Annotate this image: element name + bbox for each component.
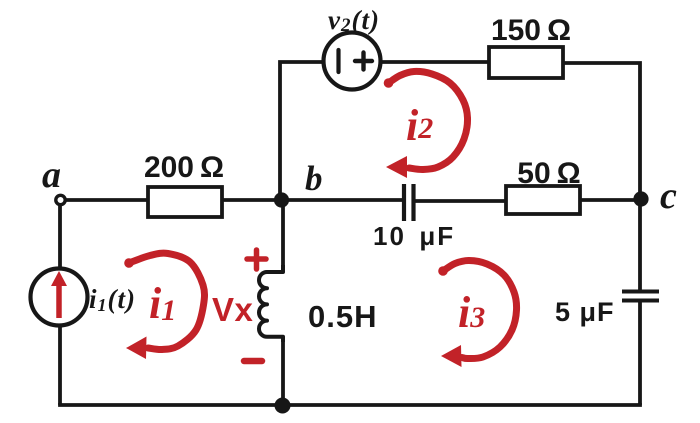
capacitor 5uF: [622, 292, 659, 301]
wire 150 ohm to top-right corner down to node c: [563, 63, 640, 197]
mesh arrow i3: [438, 260, 516, 367]
svg-text:v2(t): v2(t): [328, 5, 380, 36]
node c: [633, 191, 648, 206]
label 10uF: [373, 221, 455, 251]
label 50 ohm: [517, 157, 580, 190]
resistor 200 ohm: [148, 187, 222, 217]
mesh arrow i2: [384, 71, 468, 178]
wire top-left horizontal and vertical down to node b: [280, 62, 323, 200]
capacitor 10uF: [404, 184, 414, 221]
svg-text:50 Ω: 50 Ω: [517, 157, 580, 190]
wire 5uF capacitor to bottom-right corner: [638, 301, 642, 405]
svg-text:150 Ω: 150 Ω: [491, 14, 571, 47]
label node c: [660, 175, 677, 217]
node a: [56, 195, 65, 204]
bottom junction node: [275, 398, 291, 414]
label 150 ohm: [491, 14, 571, 47]
wire node a down to current source: [58, 202, 62, 269]
resistor 50 ohm: [506, 186, 580, 214]
svg-text:c: c: [660, 175, 677, 217]
wire voltage source to 150 ohm resistor: [381, 60, 489, 64]
label Vx: [212, 291, 254, 328]
svg-text:200 Ω: 200 Ω: [144, 151, 224, 184]
label node a: [42, 154, 61, 196]
svg-text:b: b: [305, 159, 323, 198]
wire 200 ohm to node b: [222, 198, 281, 202]
label mesh current i3: [458, 288, 485, 337]
wire inductor to bottom node: [281, 337, 285, 405]
svg-text:10 μF: 10 μF: [373, 221, 455, 251]
svg-text:a: a: [42, 154, 61, 196]
voltage source v2(t): [324, 33, 381, 90]
inductor 0.5H: [259, 265, 283, 342]
label 5uF: [555, 297, 615, 327]
mesh arrow i1: [124, 253, 204, 359]
label 200 ohm: [144, 151, 224, 184]
wire node b to 10uF capacitor: [281, 198, 402, 202]
svg-text:Vx: Vx: [212, 291, 254, 328]
svg-text:5 μF: 5 μF: [555, 297, 615, 327]
wire 10uF capacitor to 50 ohm resistor: [415, 199, 506, 203]
label v2(t): [328, 5, 380, 36]
label Vx minus sign: [244, 358, 262, 365]
current source i1(t): [31, 269, 88, 326]
label mesh current i1: [149, 279, 176, 328]
wire bottom rail: [60, 403, 640, 405]
wire node c down to 5uF capacitor: [638, 199, 642, 290]
label node b: [305, 159, 323, 198]
label mesh current i2: [406, 101, 433, 150]
svg-text:0.5H: 0.5H: [308, 299, 377, 334]
wire node a to 200 ohm resistor: [64, 198, 148, 202]
node b: [274, 192, 289, 207]
wire node b down to inductor: [281, 200, 285, 272]
wire current source to bottom-left corner: [58, 325, 62, 405]
resistor 150 ohm: [489, 47, 563, 78]
label Vx plus sign: [247, 250, 266, 269]
label i1(t): [89, 284, 136, 315]
svg-text:i1(t): i1(t): [89, 284, 136, 315]
label 0.5H: [308, 299, 377, 334]
wire 50 ohm to node c: [580, 198, 641, 202]
